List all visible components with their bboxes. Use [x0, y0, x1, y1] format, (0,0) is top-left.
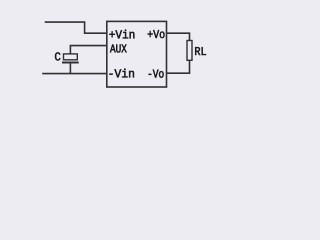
wire -Vin input (bottom left) [42, 73, 107, 75]
label +Vo (pin) [148, 30, 165, 38]
wire -Vo from load resistor [167, 60, 190, 73]
label RL (resistor designator) [195, 47, 206, 55]
label C (capacitor designator) [55, 52, 60, 60]
label -Vo (pin) [149, 70, 164, 78]
resistor RL box [187, 41, 192, 61]
wire +Vin input (top left, stepped) [45, 22, 107, 33]
wire +Vo to load resistor [167, 33, 190, 40]
wire capacitor bottom stub [69, 63, 71, 74]
label AUX (pin) [110, 45, 127, 53]
label +Vin (pin) [109, 30, 134, 39]
capacitor C bottom plate [62, 62, 79, 64]
wire AUX to capacitor top [70, 46, 106, 54]
label -Vin (pin) [109, 69, 134, 78]
converter module U1 box [107, 21, 167, 87]
capacitor C (polarized, plate rectangle) [64, 54, 78, 60]
